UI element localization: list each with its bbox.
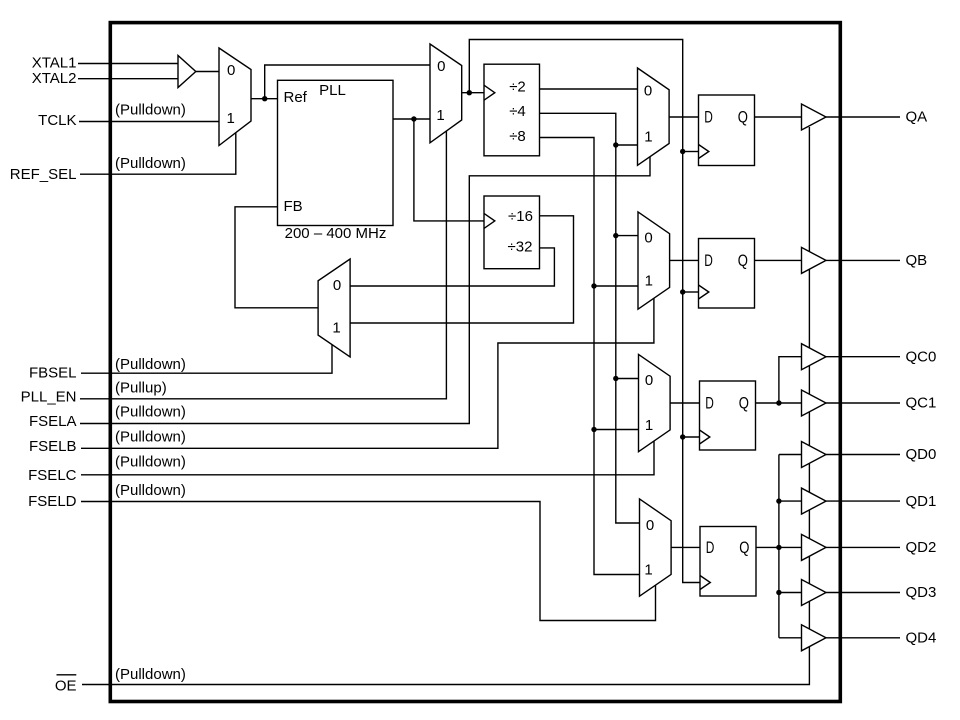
svg-text:TCLK: TCLK	[38, 112, 76, 129]
svg-text:(Pulldown): (Pulldown)	[115, 155, 186, 172]
wire DFF3 Q to buffers QC0 QC1	[756, 402, 802, 404]
clock pin symbol DFF2	[699, 285, 709, 299]
wire output QD3	[826, 592, 900, 594]
svg-text:÷16: ÷16	[508, 208, 533, 225]
svg-text:FB: FB	[284, 198, 303, 215]
node junction div8 mux M5	[591, 427, 596, 432]
svg-text:1: 1	[644, 562, 652, 579]
svg-text:Q: Q	[738, 108, 748, 127]
svg-text:1: 1	[645, 273, 653, 290]
svg-text:(Pulldown): (Pulldown)	[115, 102, 186, 119]
svg-text:0: 0	[333, 277, 341, 294]
wire mux M6 output to DFF4 D	[671, 546, 700, 548]
svg-text:÷8: ÷8	[509, 128, 526, 145]
svg-text:1: 1	[436, 107, 444, 124]
buffer U1 crystal input buffer	[178, 56, 196, 88]
svg-text:QC1: QC1	[906, 395, 937, 412]
wire PLL bypass (mux M1 output up to mux M2 input 0)	[265, 65, 430, 99]
svg-text:(Pulldown): (Pulldown)	[115, 666, 186, 683]
wire FSELA to mux M3 select	[80, 157, 650, 424]
clock pin symbol DFF1	[699, 145, 709, 159]
svg-text:0: 0	[437, 58, 445, 75]
svg-text:QD1: QD1	[906, 493, 937, 510]
svg-text:0: 0	[644, 83, 652, 100]
wire clock stub to DFF1	[683, 151, 699, 153]
mux M5 QC select	[639, 354, 671, 451]
svg-text:200 – 400 MHz: 200 – 400 MHz	[285, 225, 387, 242]
wire clock stub to DFF2	[683, 291, 699, 293]
svg-text:0: 0	[644, 230, 652, 247]
node junction QD3	[776, 590, 781, 595]
mux M4 QB select	[638, 212, 670, 309]
flip-flop DFF3	[700, 381, 756, 450]
wire div2 to mux M3 input 0	[540, 88, 638, 90]
buffer QD0	[802, 442, 827, 468]
svg-text:(Pulldown): (Pulldown)	[115, 428, 186, 445]
svg-text:XTAL2: XTAL2	[32, 70, 77, 87]
overline OE	[57, 674, 77, 676]
chip boundary	[110, 23, 840, 702]
wire div8 stub to mux M4 input 1	[594, 285, 638, 287]
svg-text:OE: OE	[55, 677, 77, 694]
svg-text:1: 1	[227, 110, 235, 127]
wire output QC0	[826, 356, 900, 358]
svg-text:(Pulldown): (Pulldown)	[115, 356, 186, 373]
wire output QD4	[826, 637, 900, 639]
mux M6 QD select	[640, 499, 672, 596]
svg-text:PLL: PLL	[319, 82, 346, 99]
svg-text:QC0: QC0	[906, 348, 937, 365]
wire div4 stub to mux M5 input 0	[616, 378, 639, 380]
buffer QA	[802, 104, 827, 130]
wire REF_SEL to mux M1 select	[80, 133, 236, 175]
svg-text:(Pulldown): (Pulldown)	[115, 482, 186, 499]
svg-text:Q: Q	[739, 394, 749, 413]
node junction DFF3 Q	[776, 400, 781, 405]
wire FSELB to mux M4 select	[81, 298, 654, 448]
wire TCLK to mux M1 input 1	[79, 121, 219, 123]
wire XTAL1	[78, 63, 178, 65]
clock pin symbol divider U3	[484, 85, 495, 100]
wire output QA	[826, 116, 900, 118]
svg-text:FSELA: FSELA	[29, 413, 77, 430]
wire QD3 stub	[779, 592, 802, 594]
flip-flop DFF4	[700, 527, 756, 597]
wire DFF4 Q to buffer QD2	[756, 546, 802, 548]
mux M3 QA select	[638, 68, 670, 165]
node junction div4 mux M3	[613, 142, 618, 147]
svg-text:Q: Q	[739, 538, 749, 557]
PLL block U2	[278, 80, 394, 225]
svg-text:÷4: ÷4	[509, 103, 526, 120]
svg-text:QB: QB	[906, 252, 928, 269]
buffer QD3	[802, 580, 827, 606]
wire mux M3 output to DFF1 D	[669, 116, 698, 118]
wire clock rail (mux M2 output up over dividers and down to flip-flop clocks)	[469, 40, 700, 583]
node junction PLL output	[411, 116, 416, 121]
wire output QC1	[826, 402, 900, 404]
svg-text:FBSEL: FBSEL	[29, 365, 77, 382]
node junction div8 mux M4	[591, 283, 596, 288]
flip-flop DFF1	[699, 95, 755, 166]
svg-text:÷32: ÷32	[508, 238, 533, 255]
mux M1 reference select	[219, 48, 251, 146]
wire QD4 stub	[779, 637, 802, 639]
svg-text:(Pulldown): (Pulldown)	[115, 453, 186, 470]
wire output QD2	[826, 546, 900, 548]
svg-text:QD3: QD3	[906, 584, 937, 601]
svg-text:(Pulldown): (Pulldown)	[115, 403, 186, 420]
clock pin symbol divider U4	[484, 213, 495, 228]
wire OE net (vertical enable rail behind output buffers)	[82, 127, 809, 685]
mux M2 PLL bypass select	[430, 44, 462, 143]
svg-text:Ref: Ref	[284, 89, 308, 106]
wire div32 to feedback mux M7 input 0	[350, 248, 554, 286]
svg-text:QD2: QD2	[906, 539, 937, 556]
svg-text:REF_SEL: REF_SEL	[10, 166, 77, 183]
svg-text:1: 1	[645, 417, 653, 434]
svg-text:FSELC: FSELC	[28, 467, 77, 484]
svg-text:÷2: ÷2	[509, 78, 526, 95]
buffer QD1	[802, 488, 827, 514]
svg-text:FSELD: FSELD	[28, 493, 77, 510]
svg-text:1: 1	[332, 320, 340, 337]
wire XTAL2	[78, 78, 178, 80]
node junction clock rail DFF2	[680, 289, 685, 294]
wire DFF1 Q to buffer QA	[755, 116, 802, 118]
svg-text:Q: Q	[738, 251, 748, 270]
wire FBSEL to mux M7 select	[81, 345, 332, 374]
wire QD0 stub	[779, 454, 802, 456]
svg-text:QD4: QD4	[906, 630, 937, 647]
wire div8 stub to mux M5 input 1	[594, 429, 639, 431]
buffer QB	[802, 247, 827, 273]
wire mux M1 output to PLL Ref	[251, 98, 278, 100]
clock pin symbol DFF4	[700, 576, 710, 590]
svg-text:QA: QA	[906, 109, 928, 126]
svg-text:QD0: QD0	[906, 446, 937, 463]
wire FSELC to mux M5 select	[81, 441, 654, 475]
node junction div4 mux M5	[613, 376, 618, 381]
wire div4 stub to mux M4 input 0	[616, 235, 638, 237]
flip-flop DFF2	[699, 239, 755, 309]
wire div8 vertical net	[540, 138, 640, 575]
wire FSELD to mux M6 select	[81, 502, 656, 621]
node junction div4 mux M4	[613, 233, 618, 238]
wire PLL_EN to mux M2 select	[80, 131, 446, 399]
svg-text:D: D	[704, 108, 713, 127]
svg-text:D: D	[706, 538, 715, 557]
wire QD distribution column	[778, 455, 780, 638]
wire mux M5 output to DFF3 D	[670, 402, 699, 404]
svg-text:FSELB: FSELB	[29, 438, 77, 455]
wire output QB	[826, 259, 900, 261]
divider block U4 (div 16,32)	[484, 196, 540, 269]
wire PLL output down to divider block U4 clock	[414, 119, 484, 221]
svg-text:1: 1	[644, 129, 652, 146]
svg-text:PLL_EN: PLL_EN	[21, 388, 77, 405]
svg-text:D: D	[704, 251, 713, 270]
node junction mux M2 output	[467, 90, 472, 95]
wire QC0 elbow	[779, 357, 802, 403]
wire PLL output to mux M2 input 1	[393, 118, 430, 120]
node junction QD1	[776, 498, 781, 503]
wire div16 to feedback mux M7 input 1	[350, 216, 573, 323]
svg-text:D: D	[705, 394, 714, 413]
buffer QC1	[802, 390, 827, 416]
wire clock stub to DFF3	[683, 436, 700, 438]
wire output QD0	[826, 454, 900, 456]
wire QD1 stub	[779, 500, 802, 502]
wire div4 vertical net	[540, 113, 640, 523]
wire div4 stub to mux M3 input 1	[616, 144, 638, 146]
node junction clock rail DFF3	[680, 434, 685, 439]
node junction mux M1 output	[262, 96, 267, 101]
node junction DFF4 Q	[776, 545, 781, 550]
svg-text:0: 0	[227, 62, 235, 79]
buffer QC0	[802, 344, 827, 370]
buffer QD2	[802, 534, 827, 560]
wire mux M4 output to DFF2 D	[670, 259, 699, 261]
clock pin symbol DFF3	[700, 430, 710, 444]
wire DFF2 Q to buffer QB	[755, 259, 802, 261]
svg-text:XTAL1: XTAL1	[32, 54, 77, 71]
svg-text:(Pullup): (Pullup)	[115, 380, 167, 397]
wire mux M2 output to divider block U3 clock	[462, 92, 484, 94]
buffer QD4	[802, 625, 827, 651]
svg-text:0: 0	[645, 372, 653, 389]
wire output QD1	[826, 500, 900, 502]
mux M7 feedback select (mirrored)	[318, 259, 350, 357]
wire buffer U1 output to mux M1 input 0	[196, 71, 219, 73]
divider block U3 (div 2,4,8)	[484, 64, 540, 156]
svg-text:0: 0	[646, 517, 654, 534]
wire feedback mux M7 output to PLL FB	[235, 207, 318, 308]
node junction clock rail DFF1	[680, 149, 685, 154]
